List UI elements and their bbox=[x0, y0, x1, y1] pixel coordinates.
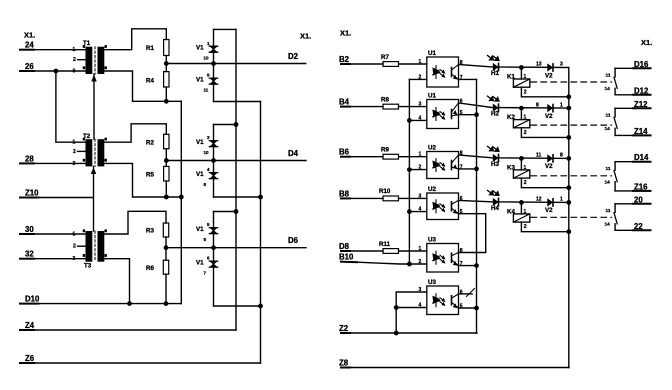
svg-text:V1: V1 bbox=[196, 77, 204, 84]
svg-text:12: 12 bbox=[536, 197, 542, 203]
svg-text:R1: R1 bbox=[146, 45, 154, 52]
svg-text:D10: D10 bbox=[25, 295, 40, 304]
svg-text:10: 10 bbox=[204, 55, 210, 60]
svg-text:1: 1 bbox=[73, 232, 76, 238]
svg-text:28: 28 bbox=[25, 154, 34, 163]
svg-text:V1: V1 bbox=[196, 45, 204, 52]
svg-text:K3: K3 bbox=[507, 164, 515, 171]
svg-text:V2: V2 bbox=[545, 72, 553, 79]
svg-text:R10: R10 bbox=[379, 188, 391, 195]
svg-text:8: 8 bbox=[460, 60, 463, 66]
svg-text:1: 1 bbox=[560, 102, 563, 108]
svg-text:X1.: X1. bbox=[340, 29, 351, 38]
svg-text:R6: R6 bbox=[146, 265, 154, 272]
svg-text:B4: B4 bbox=[339, 98, 350, 107]
svg-text:K4: K4 bbox=[507, 208, 515, 215]
svg-text:2: 2 bbox=[524, 89, 527, 95]
svg-text:1: 1 bbox=[560, 197, 563, 203]
svg-text:11: 11 bbox=[606, 166, 611, 172]
svg-text:R2: R2 bbox=[146, 140, 154, 147]
svg-text:10: 10 bbox=[204, 150, 210, 155]
svg-text:5: 5 bbox=[460, 209, 463, 215]
svg-text:13: 13 bbox=[536, 62, 542, 68]
svg-text:3: 3 bbox=[73, 161, 76, 167]
svg-text:D8: D8 bbox=[339, 242, 350, 251]
svg-text:7: 7 bbox=[460, 261, 463, 267]
svg-text:2: 2 bbox=[73, 244, 76, 250]
svg-text:5: 5 bbox=[460, 304, 463, 310]
svg-text:Z2: Z2 bbox=[339, 324, 349, 333]
svg-text:1: 1 bbox=[524, 165, 527, 171]
svg-text:7: 7 bbox=[460, 164, 463, 170]
svg-text:11: 11 bbox=[606, 73, 611, 79]
svg-text:V2: V2 bbox=[545, 207, 553, 214]
svg-text:26: 26 bbox=[25, 62, 34, 71]
svg-text:5: 5 bbox=[460, 110, 463, 116]
svg-text:U1: U1 bbox=[428, 50, 436, 57]
svg-text:R4: R4 bbox=[146, 78, 154, 85]
svg-text:7: 7 bbox=[460, 75, 463, 81]
svg-text:24: 24 bbox=[25, 41, 34, 50]
svg-text:R5: R5 bbox=[146, 172, 154, 179]
svg-text:8: 8 bbox=[560, 153, 563, 159]
svg-text:4: 4 bbox=[419, 115, 422, 121]
svg-text:3: 3 bbox=[419, 193, 422, 199]
svg-text:R8: R8 bbox=[381, 96, 389, 103]
svg-text:3: 3 bbox=[560, 62, 563, 68]
svg-text:14: 14 bbox=[605, 180, 611, 186]
svg-text:X1.: X1. bbox=[641, 38, 652, 47]
svg-text:1: 1 bbox=[524, 209, 527, 215]
svg-text:V1: V1 bbox=[196, 139, 204, 146]
svg-text:11: 11 bbox=[606, 113, 611, 119]
svg-text:H3: H3 bbox=[491, 161, 499, 168]
svg-text:V1: V1 bbox=[196, 226, 204, 233]
svg-text:R3: R3 bbox=[146, 228, 154, 235]
svg-text:20: 20 bbox=[634, 195, 643, 204]
svg-text:D6: D6 bbox=[288, 236, 299, 245]
svg-text:B8: B8 bbox=[339, 189, 350, 198]
svg-text:U2: U2 bbox=[428, 145, 436, 152]
svg-text:22: 22 bbox=[634, 222, 643, 231]
svg-text:4: 4 bbox=[419, 207, 422, 213]
svg-text:R11: R11 bbox=[379, 241, 391, 248]
svg-text:11: 11 bbox=[204, 87, 209, 92]
svg-text:1: 1 bbox=[524, 74, 527, 80]
svg-text:U2: U2 bbox=[428, 186, 436, 193]
svg-text:30: 30 bbox=[25, 225, 34, 234]
svg-text:2: 2 bbox=[73, 57, 76, 63]
svg-text:1: 1 bbox=[419, 246, 422, 252]
svg-text:14: 14 bbox=[605, 126, 611, 132]
svg-text:6: 6 bbox=[460, 289, 463, 295]
svg-text:D4: D4 bbox=[288, 149, 299, 158]
svg-text:2: 2 bbox=[524, 180, 527, 186]
svg-text:1: 1 bbox=[73, 140, 76, 146]
svg-text:11: 11 bbox=[606, 208, 611, 214]
svg-text:2: 2 bbox=[419, 259, 422, 265]
svg-text:2: 2 bbox=[524, 130, 527, 136]
svg-text:2: 2 bbox=[419, 165, 422, 171]
svg-text:H2: H2 bbox=[491, 111, 499, 118]
svg-text:8: 8 bbox=[536, 102, 539, 108]
svg-text:Z8: Z8 bbox=[339, 359, 349, 368]
svg-text:V1: V1 bbox=[196, 260, 204, 267]
svg-text:11: 11 bbox=[536, 153, 542, 159]
svg-text:H4: H4 bbox=[491, 205, 499, 212]
svg-text:32: 32 bbox=[25, 250, 34, 259]
svg-text:B10: B10 bbox=[339, 253, 354, 262]
svg-text:3: 3 bbox=[73, 256, 76, 262]
svg-text:B2: B2 bbox=[339, 55, 350, 64]
svg-text:Z12: Z12 bbox=[634, 100, 648, 109]
svg-text:6: 6 bbox=[460, 196, 463, 202]
svg-text:D14: D14 bbox=[634, 153, 649, 162]
svg-text:6: 6 bbox=[460, 98, 463, 104]
svg-text:2: 2 bbox=[419, 74, 422, 80]
svg-text:V2: V2 bbox=[545, 163, 553, 170]
svg-text:U3: U3 bbox=[428, 279, 436, 286]
svg-text:Z6: Z6 bbox=[25, 354, 35, 363]
svg-text:14: 14 bbox=[605, 86, 611, 92]
svg-text:2: 2 bbox=[73, 149, 76, 155]
svg-text:1: 1 bbox=[419, 59, 422, 65]
svg-text:8: 8 bbox=[460, 151, 463, 157]
svg-text:R7: R7 bbox=[381, 54, 389, 61]
svg-text:Z14: Z14 bbox=[634, 127, 648, 136]
svg-text:U1: U1 bbox=[428, 93, 436, 100]
svg-text:2: 2 bbox=[524, 224, 527, 230]
svg-text:Z10: Z10 bbox=[25, 189, 39, 198]
svg-text:14: 14 bbox=[605, 222, 611, 228]
svg-text:3: 3 bbox=[419, 102, 422, 108]
svg-text:K2: K2 bbox=[507, 114, 515, 121]
svg-text:4: 4 bbox=[419, 303, 422, 309]
svg-text:X1.: X1. bbox=[24, 31, 35, 40]
svg-text:8: 8 bbox=[460, 248, 463, 254]
svg-text:1: 1 bbox=[419, 152, 422, 158]
svg-text:D12: D12 bbox=[634, 86, 649, 95]
svg-text:D16: D16 bbox=[634, 60, 649, 69]
svg-text:3: 3 bbox=[419, 287, 422, 293]
svg-text:K1: K1 bbox=[507, 74, 515, 81]
svg-text:Z16: Z16 bbox=[634, 182, 648, 191]
svg-text:T3: T3 bbox=[84, 263, 92, 270]
svg-text:1: 1 bbox=[73, 47, 76, 53]
svg-text:V1: V1 bbox=[196, 171, 204, 178]
svg-text:U3: U3 bbox=[428, 237, 436, 244]
svg-text:H1: H1 bbox=[491, 70, 499, 77]
svg-text:1: 1 bbox=[524, 115, 527, 121]
svg-text:Z4: Z4 bbox=[25, 321, 35, 330]
svg-text:3: 3 bbox=[73, 69, 76, 75]
svg-text:V2: V2 bbox=[545, 113, 553, 120]
svg-text:D2: D2 bbox=[288, 52, 299, 61]
svg-text:R9: R9 bbox=[381, 147, 389, 154]
svg-text:B6: B6 bbox=[339, 148, 350, 157]
svg-text:X1.: X1. bbox=[300, 32, 311, 41]
